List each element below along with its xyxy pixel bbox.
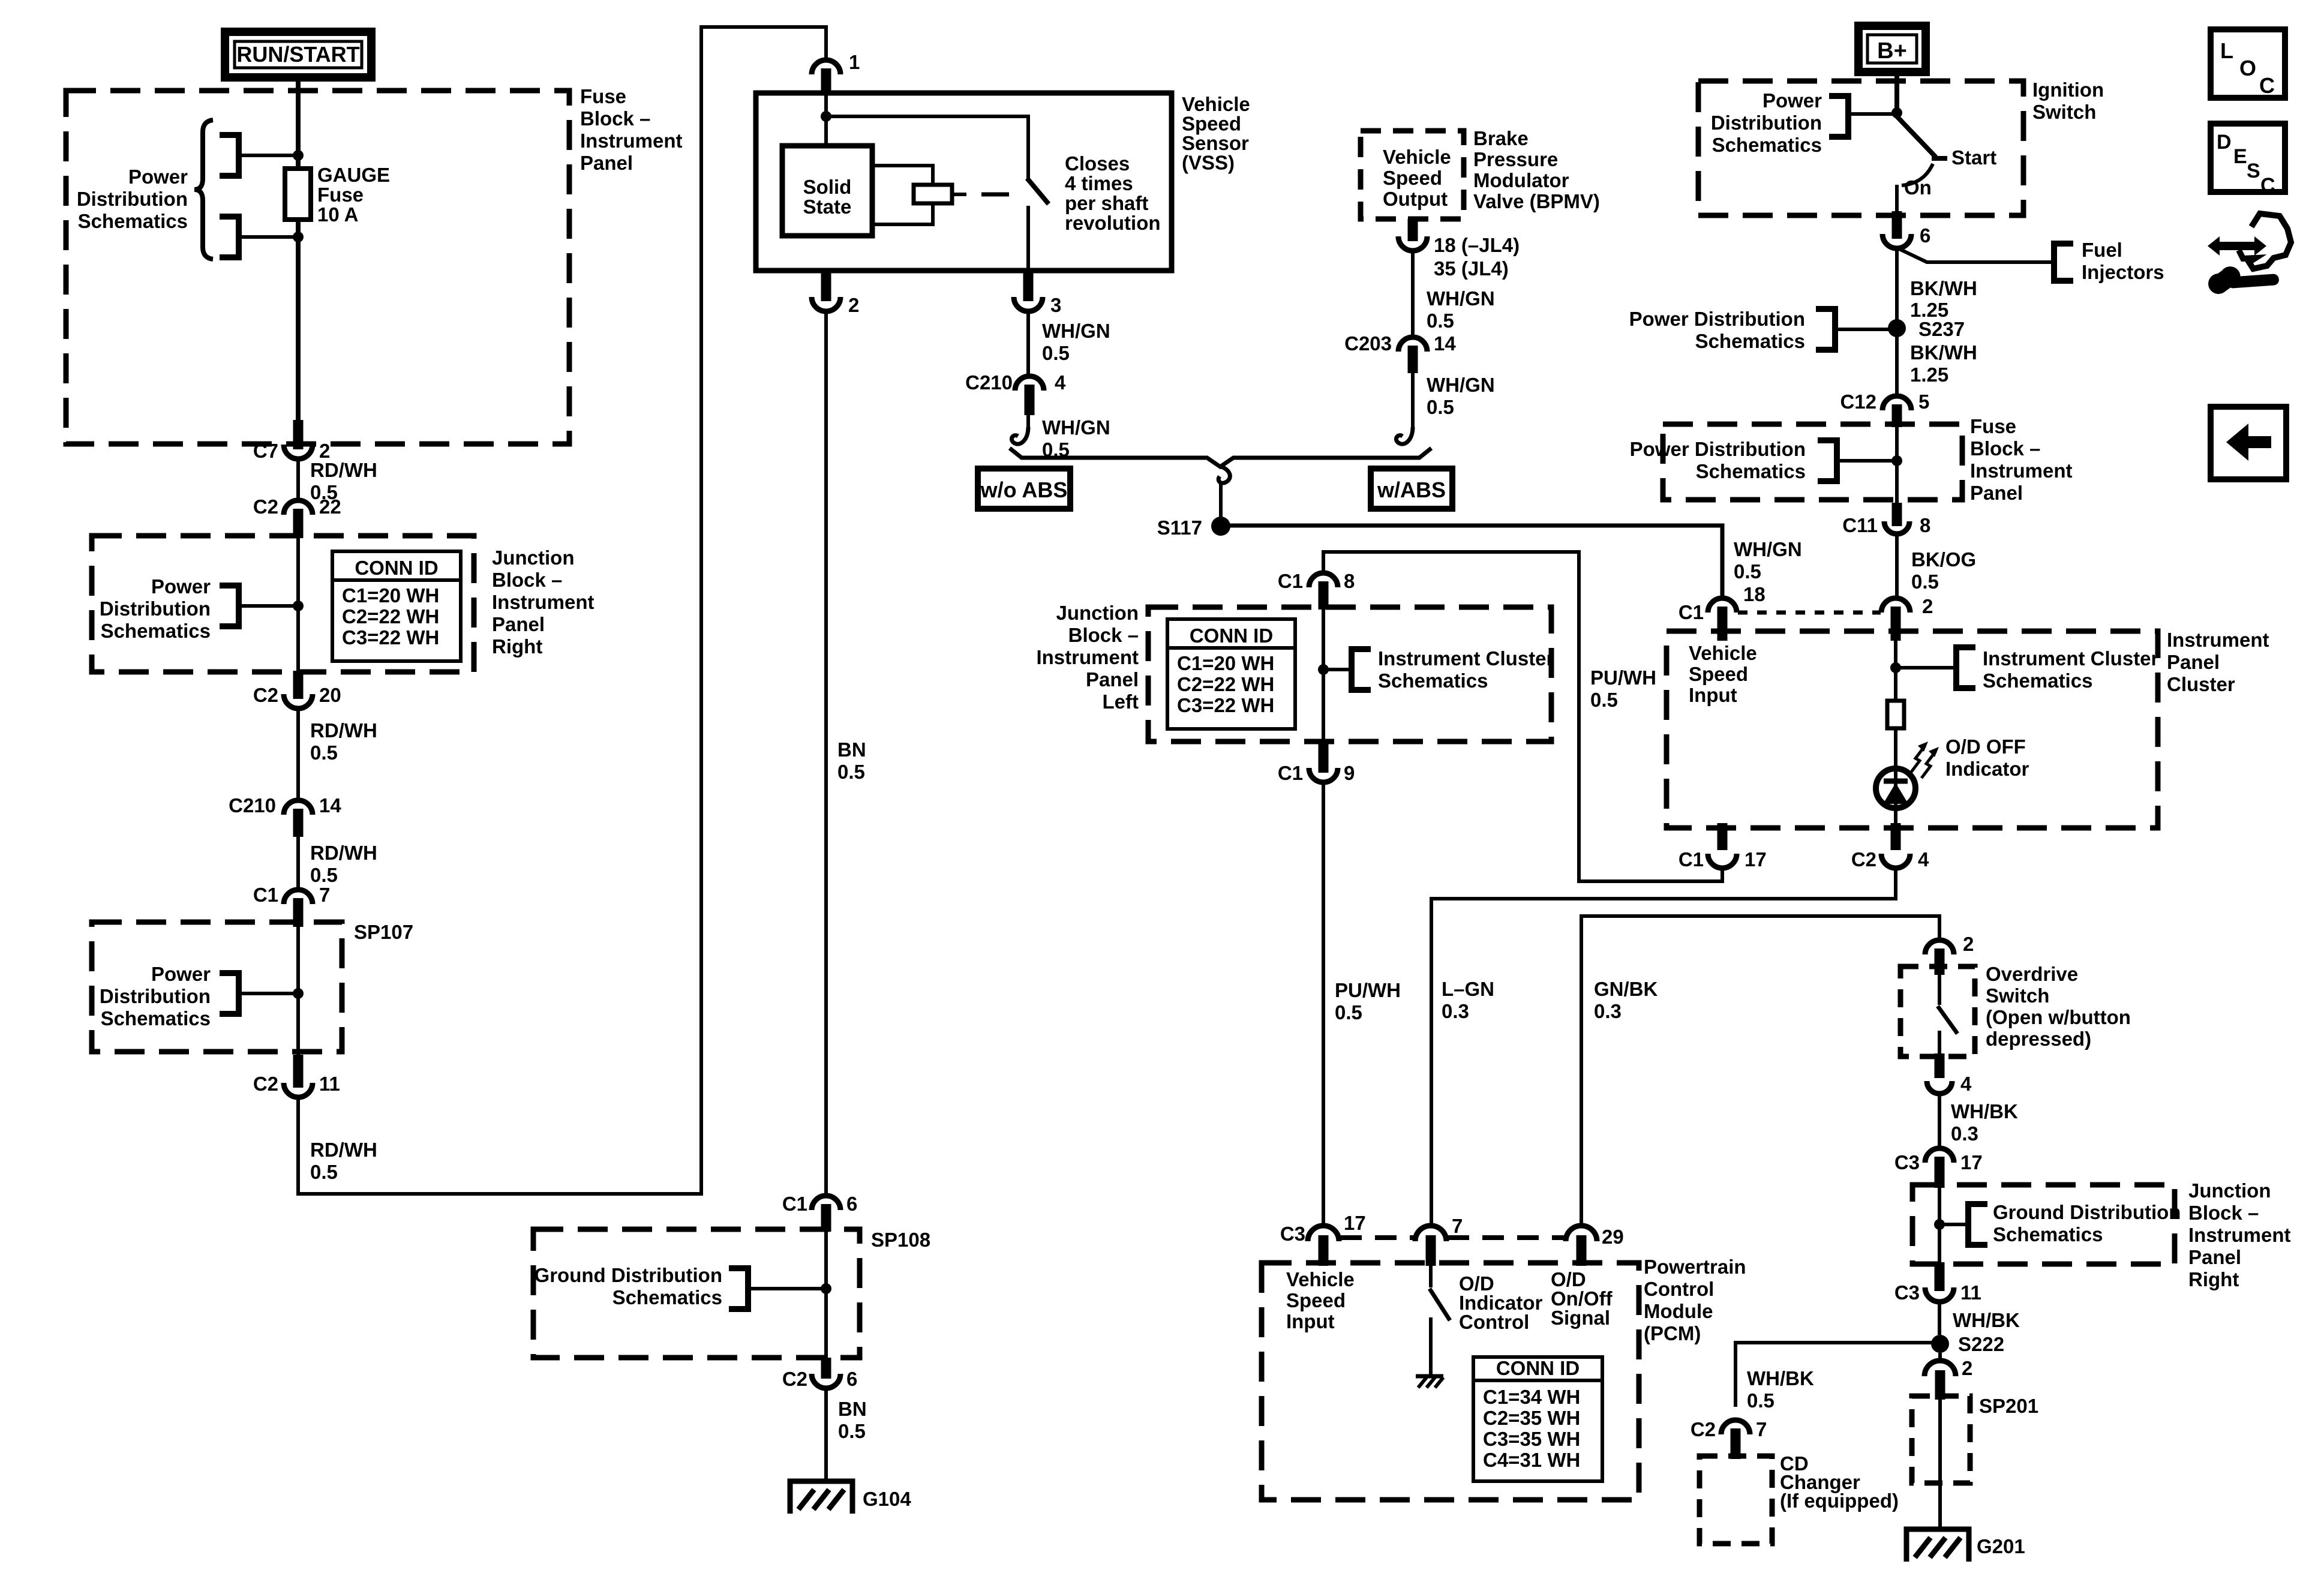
power distribution schematics reference (SP107)	[100, 963, 304, 1029]
svg-text:Power Distribution: Power Distribution	[1630, 438, 1806, 460]
wire through junction block	[296, 534, 300, 675]
svg-text:WH/GN: WH/GN	[1734, 538, 1802, 560]
wire RD/WH 0.5 (2)	[298, 708, 377, 801]
svg-text:18: 18	[1743, 583, 1765, 605]
svg-text:Schematics: Schematics	[1696, 460, 1806, 482]
cluster resistor	[1887, 701, 1904, 769]
svg-text:PU/WH: PU/WH	[1590, 667, 1656, 689]
svg-text:0.3: 0.3	[1594, 1000, 1622, 1022]
svg-text:WH/GN: WH/GN	[1427, 374, 1495, 396]
svg-text:Fuse: Fuse	[317, 184, 364, 206]
ground distribution schematics reference (SP108)	[535, 1264, 831, 1309]
svg-text:w/o ABS: w/o ABS	[980, 478, 1068, 502]
DESC icon	[2211, 124, 2285, 197]
wire PU/WH 0.5 (cluster to junction block)	[1323, 552, 1722, 881]
svg-text:SP107: SP107	[354, 921, 413, 943]
svg-text:Panel: Panel	[580, 152, 633, 174]
svg-text:BK/WH: BK/WH	[1910, 341, 1977, 364]
svg-text:C1=34 WH: C1=34 WH	[1483, 1386, 1580, 1408]
svg-text:Schematics: Schematics	[1993, 1223, 2103, 1245]
svg-text:Vehicle: Vehicle	[1182, 93, 1250, 115]
wire through SP107	[296, 924, 300, 1055]
brace output hook	[1218, 467, 1230, 483]
fuse block instrument panel box (right)	[1663, 415, 2073, 504]
wire VSS internal left	[824, 95, 828, 146]
svg-text:Ground Distribution: Ground Distribution	[535, 1264, 722, 1286]
svg-text:S237: S237	[1918, 318, 1965, 340]
svg-text:State: State	[803, 196, 852, 218]
instrument cluster schematics reference (junction block left)	[1318, 647, 1554, 692]
svg-text:Schematics: Schematics	[1712, 134, 1822, 156]
svg-text:Signal: Signal	[1551, 1307, 1610, 1329]
connector C203 pin 14	[1344, 332, 1456, 373]
svg-text:35 (JL4): 35 (JL4)	[1434, 257, 1509, 280]
svg-text:BK/OG: BK/OG	[1911, 548, 1976, 571]
svg-text:C4=31 WH: C4=31 WH	[1483, 1449, 1580, 1471]
svg-text:Input: Input	[1286, 1310, 1335, 1332]
svg-text:SP108: SP108	[871, 1229, 930, 1251]
wire BN 0.5 (long)	[826, 311, 866, 1196]
svg-text:0.5: 0.5	[1042, 342, 1070, 364]
svg-text:C3: C3	[1280, 1223, 1305, 1245]
wire RUN/START to fuse	[296, 77, 301, 169]
svg-text:2: 2	[1962, 1357, 1972, 1379]
svg-text:PU/WH: PU/WH	[1335, 979, 1401, 1001]
power feed tag RUN/START	[225, 32, 371, 77]
svg-text:Power: Power	[151, 963, 211, 985]
svg-text:2: 2	[1963, 933, 1974, 955]
svg-text:C2: C2	[1851, 848, 1876, 870]
LOC icon	[2211, 29, 2285, 98]
wire GN/BK 0.3	[1581, 916, 1939, 1226]
svg-text:Speed: Speed	[1689, 663, 1748, 685]
svg-text:Pressure: Pressure	[1473, 148, 1558, 170]
svg-text:CONN ID: CONN ID	[1190, 625, 1273, 647]
overdrive switch contacts	[1938, 972, 1957, 1055]
svg-text:Instrument Cluster: Instrument Cluster	[1983, 647, 2159, 670]
svg-text:Cluster: Cluster	[2167, 673, 2235, 695]
ignition switch contacts	[1896, 115, 1996, 217]
CD changer box	[1700, 1452, 1899, 1544]
svg-text:GAUGE: GAUGE	[317, 164, 390, 186]
connector C2 pin 7 (CD changer)	[1691, 1418, 1767, 1459]
svg-text:0.5: 0.5	[1911, 571, 1939, 593]
svg-text:22: 22	[319, 496, 341, 518]
svg-text:Schematics: Schematics	[1983, 670, 2092, 692]
svg-text:RD/WH: RD/WH	[310, 1139, 377, 1161]
connector pin 1 (VSS)	[812, 51, 860, 95]
svg-text:Right: Right	[2188, 1268, 2239, 1290]
wire WH/GN 0.5 (BPMV)	[1413, 251, 1495, 338]
svg-text:Speed: Speed	[1383, 167, 1442, 189]
power distribution schematics reference (ignition switch)	[1711, 89, 1902, 156]
svg-text:3: 3	[1050, 294, 1061, 316]
svg-text:Panel: Panel	[1086, 668, 1139, 691]
wire SP201 to ground	[1938, 1398, 1942, 1529]
svg-text:C2=22 WH: C2=22 WH	[342, 605, 439, 628]
wire brace to S117	[1219, 481, 1223, 526]
svg-text:revolution: revolution	[1065, 212, 1161, 234]
ground distribution schematics reference (junction block)	[1934, 1201, 2181, 1245]
power distribution schematics reference (junction block right)	[100, 575, 304, 642]
svg-text:17: 17	[1960, 1151, 1983, 1173]
svg-text:C3=35 WH: C3=35 WH	[1483, 1428, 1580, 1450]
option brace	[1010, 448, 1431, 467]
svg-text:Solid: Solid	[803, 176, 852, 198]
svg-text:0.5: 0.5	[838, 1420, 866, 1442]
ground G201	[1906, 1529, 2025, 1562]
battery feed tag B+	[1858, 26, 1926, 72]
overdrive switch box	[1900, 963, 2131, 1056]
svg-text:BK/WH: BK/WH	[1910, 277, 1977, 299]
svg-text:G201: G201	[1977, 1535, 2025, 1557]
svg-text:Module: Module	[1644, 1300, 1713, 1322]
svg-text:6: 6	[846, 1368, 857, 1390]
wire WH/GN (S117 to cluster C1/18)	[1221, 526, 1802, 599]
svg-text:(Open w/button: (Open w/button	[1986, 1006, 2131, 1028]
wire RD/WH 0.5 (3)	[298, 834, 377, 890]
svg-text:(PCM): (PCM)	[1644, 1322, 1701, 1344]
svg-text:C2: C2	[253, 684, 278, 706]
svg-text:Instrument: Instrument	[492, 591, 594, 613]
svg-text:Ignition: Ignition	[2032, 79, 2104, 101]
wire through SP108	[824, 1230, 828, 1362]
svg-text:On: On	[1904, 176, 1932, 199]
svg-text:L–GN: L–GN	[1442, 978, 1494, 1000]
svg-text:WH/GN: WH/GN	[1042, 320, 1110, 342]
svg-text:Fuel: Fuel	[2082, 239, 2122, 261]
wire WH/GN 0.5 with hook (w/ABS)	[1396, 373, 1494, 444]
svg-text:w/ABS: w/ABS	[1377, 478, 1446, 502]
svg-text:Overdrive: Overdrive	[1986, 963, 2078, 985]
connector pin 6 (ignition)	[1882, 211, 1930, 248]
svg-text:0.5: 0.5	[1427, 396, 1454, 418]
svg-text:C3: C3	[1894, 1151, 1920, 1173]
svg-text:Power: Power	[151, 575, 211, 598]
connector C1 pin 7	[253, 884, 331, 927]
svg-text:Left: Left	[1103, 691, 1139, 713]
svg-text:C1: C1	[253, 884, 278, 906]
svg-text:8: 8	[1920, 514, 1930, 536]
wire VSS branch to switch	[826, 116, 1028, 179]
svg-text:Block –: Block –	[580, 107, 650, 130]
svg-text:Junction: Junction	[492, 547, 575, 569]
svg-text:1: 1	[849, 51, 860, 73]
svg-text:Control: Control	[1459, 1311, 1529, 1333]
svg-text:BN: BN	[838, 1398, 867, 1420]
svg-text:D: D	[2217, 131, 2232, 154]
svg-text:Distribution: Distribution	[1711, 112, 1822, 134]
connector C3 pin 11	[1894, 1262, 1981, 1304]
svg-text:7: 7	[1756, 1418, 1767, 1440]
svg-text:C3: C3	[1894, 1281, 1920, 1304]
svg-text:Junction: Junction	[1056, 602, 1139, 624]
svg-text:Input: Input	[1689, 684, 1737, 706]
svg-text:18 (–JL4): 18 (–JL4)	[1434, 234, 1520, 256]
svg-text:C1=20 WH: C1=20 WH	[342, 584, 439, 607]
svg-text:C3=22 WH: C3=22 WH	[1177, 694, 1274, 716]
svg-text:2: 2	[1922, 595, 1933, 617]
connector pin 3 (VSS)	[1014, 271, 1061, 316]
service information icon	[2208, 214, 2291, 294]
svg-text:Modulator: Modulator	[1473, 169, 1569, 191]
svg-text:WH/BK: WH/BK	[1953, 1309, 2020, 1331]
svg-text:7: 7	[319, 884, 330, 906]
svg-text:0.5: 0.5	[1747, 1389, 1774, 1412]
solid state module	[782, 146, 872, 236]
svg-text:Schematics: Schematics	[101, 620, 211, 642]
svg-text:Closes: Closes	[1065, 152, 1130, 175]
wire WH/GN 0.5 with hook (w/o ABS)	[1011, 415, 1110, 461]
connector C2 pin 6	[782, 1358, 858, 1390]
svg-text:C: C	[2259, 73, 2275, 98]
instrument panel cluster box	[1667, 629, 2269, 828]
svg-text:Sensor: Sensor	[1182, 132, 1249, 154]
connector pin 2 (overdrive switch)	[1925, 933, 1974, 975]
svg-text:C1: C1	[1679, 848, 1704, 870]
ground G104	[790, 1481, 911, 1514]
svg-text:0.5: 0.5	[1734, 560, 1761, 583]
svg-text:WH/BK: WH/BK	[1747, 1367, 1814, 1389]
connector C2 pin 20	[253, 671, 341, 709]
svg-text:Distribution: Distribution	[100, 598, 211, 620]
svg-text:Block –: Block –	[492, 569, 562, 591]
svg-text:RD/WH: RD/WH	[310, 459, 377, 481]
svg-text:Fuse: Fuse	[580, 85, 626, 107]
w/o ABS tag	[978, 469, 1070, 509]
connector C1 pin 17	[1679, 823, 1767, 870]
connector pin 18/35 (BPMV)	[1398, 219, 1520, 280]
svg-text:Ground Distribution: Ground Distribution	[1993, 1201, 2181, 1223]
connector pin 2 (VSS)	[812, 271, 859, 316]
connector C7 pin 2	[253, 420, 331, 462]
splice SP201 box	[1912, 1395, 2038, 1483]
svg-text:1.25: 1.25	[1910, 364, 1948, 386]
wire fuse to C7	[296, 220, 301, 425]
svg-text:7: 7	[1452, 1215, 1463, 1237]
svg-text:11: 11	[319, 1073, 340, 1095]
svg-text:GN/BK: GN/BK	[1594, 978, 1658, 1000]
wire cluster internal (O/D lamp branch)	[1894, 627, 1897, 701]
wire BN 0.5 to ground	[826, 1388, 867, 1481]
svg-text:Instrument: Instrument	[580, 130, 683, 152]
splice SP108 box	[533, 1229, 930, 1358]
svg-text:8: 8	[1344, 570, 1355, 592]
svg-text:C11: C11	[1842, 514, 1878, 536]
junction block instrument panel left box	[1036, 602, 1551, 742]
node fuse output	[293, 232, 304, 242]
svg-text:Schematics: Schematics	[101, 1007, 211, 1029]
svg-text:0.3: 0.3	[1951, 1122, 1978, 1145]
svg-text:Panel: Panel	[492, 613, 545, 635]
svg-text:per shaft: per shaft	[1065, 192, 1148, 214]
svg-text:C2: C2	[253, 496, 278, 518]
svg-text:C7: C7	[253, 440, 278, 462]
svg-text:Speed: Speed	[1286, 1289, 1346, 1311]
CONN ID table (junction block left)	[1167, 619, 1295, 729]
svg-text:Indicator: Indicator	[1945, 758, 2029, 780]
svg-text:Vehicle: Vehicle	[1689, 642, 1757, 664]
fuel injectors takeoff	[1898, 239, 2164, 283]
svg-text:0.5: 0.5	[1427, 310, 1454, 332]
svg-text:29: 29	[1602, 1226, 1624, 1248]
svg-text:0.3: 0.3	[1442, 1000, 1469, 1022]
svg-text:Power: Power	[1762, 89, 1822, 112]
svg-text:C12: C12	[1840, 391, 1876, 413]
svg-text:Instrument: Instrument	[1036, 646, 1139, 668]
svg-text:BN: BN	[837, 739, 866, 761]
svg-text:Power Distribution: Power Distribution	[1629, 308, 1805, 330]
junction block instrument panel right box	[92, 536, 594, 672]
svg-text:C210: C210	[965, 371, 1013, 394]
CONN ID table (PCM)	[1473, 1357, 1602, 1481]
power distribution schematics reference (fuse block right)	[1630, 438, 1902, 482]
svg-text:S: S	[2247, 160, 2260, 182]
svg-text:S222: S222	[1958, 1333, 2004, 1355]
power distribution schematics reference (S237)	[1629, 308, 1890, 352]
connector C3 pin 17 (junction block)	[1894, 1148, 1983, 1188]
svg-text:L: L	[2220, 38, 2233, 63]
svg-text:C1: C1	[1278, 762, 1303, 784]
svg-text:C2=22 WH: C2=22 WH	[1177, 673, 1274, 695]
splice SP107 box	[92, 921, 413, 1052]
w/ABS tag	[1371, 469, 1452, 509]
svg-text:WH/BK: WH/BK	[1951, 1100, 2018, 1122]
wire B+ to switch	[1894, 72, 1899, 115]
svg-text:Panel: Panel	[2167, 651, 2220, 673]
svg-text:Powertrain: Powertrain	[1644, 1256, 1746, 1278]
svg-text:4: 4	[1918, 848, 1929, 870]
svg-text:C2: C2	[1691, 1418, 1716, 1440]
svg-text:0.5: 0.5	[310, 742, 338, 764]
svg-text:0.5: 0.5	[310, 864, 338, 886]
reed switch blade	[1027, 152, 1161, 271]
svg-text:Right: Right	[492, 635, 542, 658]
connector row dotted line	[1738, 611, 1881, 615]
PCM pin labels	[1286, 1268, 1613, 1333]
svg-text:S117: S117	[1157, 517, 1202, 539]
svg-text:Schematics: Schematics	[1695, 330, 1805, 352]
wire BK/OG 0.5	[1897, 534, 1976, 599]
svg-text:Block –: Block –	[1068, 624, 1139, 646]
svg-text:Brake: Brake	[1473, 127, 1529, 149]
svg-text:RD/WH: RD/WH	[310, 842, 377, 864]
svg-text:Distribution: Distribution	[77, 188, 188, 210]
svg-text:17: 17	[1344, 1212, 1366, 1234]
svg-text:C3=22 WH: C3=22 WH	[342, 626, 439, 649]
splice S222	[1931, 1333, 2004, 1355]
wire WH/BK 0.5 (to CD changer)	[1736, 1343, 1933, 1412]
svg-text:Switch: Switch	[2032, 101, 2096, 123]
svg-text:Schematics: Schematics	[612, 1286, 722, 1308]
junction block instrument panel right box (lower)	[1912, 1179, 2291, 1290]
connector C2 pin 4	[1851, 823, 1929, 870]
wire RD/WH 0.5	[298, 458, 377, 503]
PCM O/D indicator driver switch to ground	[1416, 1266, 1450, 1388]
vehicle speed output box (BPMV)	[1361, 127, 1600, 219]
svg-text:Junction: Junction	[2188, 1179, 2271, 1202]
svg-text:O/D OFF: O/D OFF	[1945, 736, 2026, 758]
svg-text:(VSS): (VSS)	[1182, 152, 1235, 174]
svg-text:4: 4	[1055, 371, 1066, 394]
svg-text:9: 9	[1344, 762, 1355, 784]
svg-text:Injectors: Injectors	[2082, 261, 2164, 283]
svg-text:Valve (BPMV): Valve (BPMV)	[1473, 190, 1600, 212]
powertrain control module box (PCM)	[1262, 1256, 1746, 1500]
svg-text:WH/GN: WH/GN	[1427, 287, 1495, 310]
svg-text:6: 6	[1920, 224, 1930, 247]
instrument cluster schematics reference (cluster)	[1890, 647, 2159, 692]
svg-text:O: O	[2239, 56, 2256, 80]
wire BK/WH 1.25	[1897, 248, 1977, 324]
svg-text:C1=20 WH: C1=20 WH	[1177, 652, 1274, 674]
connector C2 pin 22	[253, 496, 341, 538]
svg-text:C210: C210	[229, 794, 276, 816]
connector C11 pin 8	[1842, 503, 1930, 536]
svg-text:C1: C1	[1679, 601, 1704, 623]
connector pin 7 (PCM)	[1415, 1215, 1463, 1266]
svg-text:C2: C2	[782, 1368, 807, 1390]
svg-text:Vehicle: Vehicle	[1383, 146, 1451, 168]
svg-text:Speed: Speed	[1182, 113, 1241, 135]
vehicle speed sensor (VSS) box	[756, 93, 1250, 271]
connector pin 2 (SP201)	[1924, 1353, 1972, 1400]
svg-text:E: E	[2233, 145, 2247, 168]
CONN ID table (junction block right)	[332, 551, 461, 661]
svg-text:(If equipped): (If equipped)	[1780, 1490, 1899, 1512]
wire PU/WH 0.5 (to PCM)	[1323, 782, 1401, 1227]
svg-text:Panel: Panel	[2188, 1246, 2241, 1268]
svg-text:Control: Control	[1644, 1278, 1714, 1300]
svg-text:6: 6	[846, 1193, 857, 1215]
svg-text:Block –: Block –	[2188, 1202, 2259, 1224]
svg-text:4: 4	[1960, 1073, 1972, 1095]
svg-text:Start: Start	[1951, 146, 1996, 169]
svg-text:Panel: Panel	[1970, 482, 2023, 504]
connector C1 pin 6	[782, 1193, 858, 1232]
O/D OFF indicator LED	[1876, 736, 2029, 829]
wire through junction block lower	[1938, 1187, 1941, 1267]
connector C1 pin 8	[1278, 570, 1355, 610]
wire through junction block left	[1322, 606, 1325, 746]
svg-text:depressed): depressed)	[1986, 1028, 2091, 1050]
svg-text:4 times: 4 times	[1065, 172, 1133, 194]
sensor coil	[914, 185, 1009, 203]
power distribution schematics reference (fuse block)	[77, 120, 298, 259]
connector pin 29 (PCM)	[1566, 1226, 1624, 1266]
svg-text:Distribution: Distribution	[100, 985, 211, 1007]
svg-text:17: 17	[1744, 848, 1767, 870]
wire RD/WH 0.5 to VSS pin 1	[298, 27, 826, 1194]
connector C3 pin 17 (PCM)	[1280, 1212, 1366, 1266]
svg-text:Schematics: Schematics	[78, 210, 188, 232]
svg-text:0.5: 0.5	[1590, 689, 1618, 711]
svg-text:CONN ID: CONN ID	[1496, 1357, 1580, 1379]
connector C1 pin 18	[1679, 583, 1765, 641]
svg-text:14: 14	[319, 794, 341, 816]
svg-text:Instrument: Instrument	[1970, 460, 2073, 482]
svg-text:14: 14	[1434, 332, 1456, 355]
connector C12 pin 5	[1840, 391, 1929, 427]
svg-text:20: 20	[319, 684, 341, 706]
connector pin 2 (cluster)	[1881, 595, 1933, 641]
connector C210 pin 4	[965, 371, 1066, 415]
connector C210 pin 14	[229, 794, 341, 837]
fuse block instrument panel box (left)	[66, 85, 683, 444]
wire L-GN 0.3	[1431, 868, 1896, 1227]
svg-text:Power: Power	[128, 166, 188, 188]
splice S117	[1157, 517, 1230, 539]
